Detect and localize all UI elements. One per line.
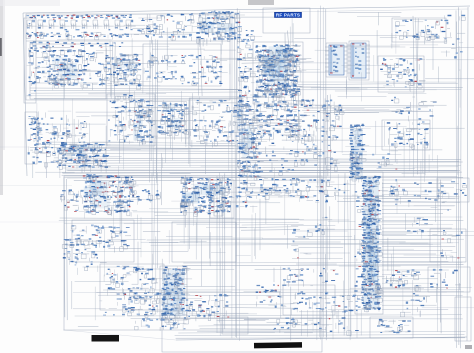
svg-text:RF PARTS: RF PARTS <box>276 13 300 18</box>
